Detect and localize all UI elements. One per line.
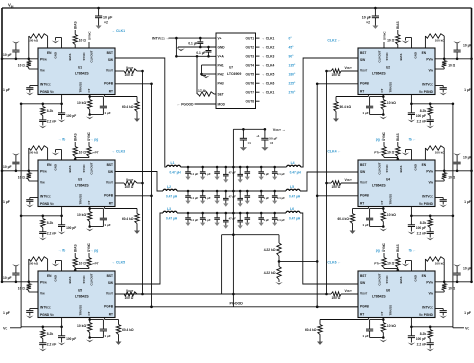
svg-text:VC: VC xyxy=(465,327,470,331)
svg-text:VOUT: VOUT xyxy=(126,289,134,293)
svg-text:1 µF: 1 µF xyxy=(362,334,368,338)
svg-text:60.4 kΩ: 60.4 kΩ xyxy=(122,217,134,221)
svg-text:100 kΩ: 100 kΩ xyxy=(435,150,446,154)
resistor R1d comp 8.2k xyxy=(42,104,44,107)
svg-text:VOUT: VOUT xyxy=(126,178,134,182)
svg-text:×2: ×2 xyxy=(104,21,108,25)
wire PGOOD U4 xyxy=(317,195,358,197)
svg-text:1 µF: 1 µF xyxy=(362,223,368,227)
svg-text:PH2: PH2 xyxy=(218,72,224,76)
svg-text:VC PGND: VC PGND xyxy=(419,90,434,94)
wire PGOOD U5 xyxy=(115,306,152,308)
svg-text:10 µF: 10 µF xyxy=(362,16,372,20)
ground GND pin U4 xyxy=(411,150,413,161)
capacitor C4a 10uF PVIN bypass xyxy=(456,170,459,173)
svg-text:100 Ω: 100 Ω xyxy=(332,73,341,77)
svg-text:→ CLK3: → CLK3 xyxy=(262,55,275,59)
wire FB tap xyxy=(279,260,317,262)
svg-text:VOUT: VOUT xyxy=(345,289,353,293)
svg-text:LTC6909: LTC6909 xyxy=(227,72,241,76)
capacitor C3e 1uF CT xyxy=(90,208,104,210)
svg-text:LT8642S: LT8642S xyxy=(75,72,89,76)
svg-text:4.22 kΩ: 4.22 kΩ xyxy=(264,271,276,275)
svg-text:SYNC: SYNC xyxy=(385,275,389,284)
capacitor CIN2 10uF on VIN rail right xyxy=(374,7,377,10)
svg-text:CLKOUT: CLKOUT xyxy=(378,50,382,62)
svg-text:OUT4: OUT4 xyxy=(245,64,254,68)
capacitor C4c comp 2.2nF xyxy=(427,231,434,233)
wire SW phase 3 xyxy=(115,172,163,192)
svg-text:45°: 45° xyxy=(289,46,295,50)
svg-text:SYNC: SYNC xyxy=(82,52,86,61)
wire PGOOD U6 xyxy=(317,306,358,308)
svg-text:L4: L4 xyxy=(291,161,295,165)
svg-text:VOUT: VOUT xyxy=(360,291,368,295)
svg-text:VIN: VIN xyxy=(428,291,433,295)
svg-text:PGFB: PGFB xyxy=(104,304,114,308)
svg-text:100 pF: 100 pF xyxy=(66,226,76,230)
svg-text:10 Ω: 10 Ω xyxy=(448,64,455,68)
svg-text:LT8642S: LT8642S xyxy=(75,295,89,299)
svg-text:10 Ω: 10 Ω xyxy=(18,64,25,68)
wire PGOOD bottom bus xyxy=(115,306,358,308)
svg-text:INTVCC: INTVCC xyxy=(422,195,433,199)
svg-text:×2: ×2 xyxy=(366,21,370,25)
capacitor COUT row3 col3 xyxy=(216,212,219,215)
capacitor COUT row1 col3 xyxy=(216,166,219,169)
svg-text:CLKOUT: CLKOUT xyxy=(378,162,382,174)
svg-text:4.22 kΩ: 4.22 kΩ xyxy=(264,248,276,252)
svg-text:OUT3: OUT3 xyxy=(245,55,254,59)
regulator U1 LT8642S body xyxy=(38,48,115,95)
inductor L6 0.47uH xyxy=(286,211,300,213)
svg-text:VIN: VIN xyxy=(428,68,433,72)
ground GND pin U3 xyxy=(61,150,63,161)
svg-text:LT8642S: LT8642S xyxy=(372,72,386,76)
svg-text:10 kΩ: 10 kΩ xyxy=(77,101,86,105)
inductor L1 0.47uH xyxy=(167,165,181,167)
svg-text:BIAS: BIAS xyxy=(73,244,77,252)
svg-text:VOUT: VOUT xyxy=(360,180,368,184)
svg-text:100 pF: 100 pF xyxy=(416,114,426,118)
svg-text:U5: U5 xyxy=(78,289,82,293)
resistor R1f 60.4k RT xyxy=(104,95,106,97)
svg-text:INTVCC1 →: INTVCC1 → xyxy=(152,36,169,40)
svg-text:10 Ω: 10 Ω xyxy=(448,176,455,180)
svg-text:1 µF: 1 µF xyxy=(464,200,471,204)
capacitor CIN1 10uF on VIN rail xyxy=(97,7,100,10)
svg-text:CT: CT xyxy=(87,200,91,204)
svg-text:10 kΩ: 10 kΩ xyxy=(77,324,86,328)
wire PVIN U2 xyxy=(435,58,472,60)
svg-text:8.2k: 8.2k xyxy=(47,109,54,113)
svg-text:10 Ω: 10 Ω xyxy=(79,262,87,266)
regulator U3 LT8642S body xyxy=(38,160,115,207)
svg-text:→ CLK1: → CLK1 xyxy=(262,37,275,41)
svg-text:60.4 kΩ: 60.4 kΩ xyxy=(305,328,317,332)
svg-text:VOUT: VOUT xyxy=(360,68,368,72)
wire PVIN U3 xyxy=(2,170,38,172)
resistor R5g 100ohm VOUT sense xyxy=(115,293,124,295)
svg-text:17.4k: 17.4k xyxy=(198,89,206,93)
svg-text:VC PGND: VC PGND xyxy=(419,313,434,317)
node SYNC U1 clock net xyxy=(88,42,90,48)
wire SW phase 4 xyxy=(300,172,358,191)
svg-text:→ CLK2: → CLK2 xyxy=(262,46,275,50)
wire VC comp U2 xyxy=(410,95,412,104)
resistor RFB2 4.22k xyxy=(277,267,281,280)
svg-text:OUT8: OUT8 xyxy=(245,100,254,104)
capacitor C1c comp 2.2nF xyxy=(39,119,46,121)
resistor R2a 100k EN pullup xyxy=(443,58,446,61)
svg-text:BIAS: BIAS xyxy=(68,166,72,173)
svg-text:PVIN: PVIN xyxy=(40,58,47,62)
svg-text:BIAS: BIAS xyxy=(399,54,403,61)
ground divider xyxy=(275,282,283,285)
svg-text:BIAS: BIAS xyxy=(73,21,77,29)
svg-text:TRK/SS: TRK/SS xyxy=(79,194,83,205)
svg-text:BST: BST xyxy=(360,163,366,167)
svg-text:SET: SET xyxy=(218,92,224,96)
capacitor C5a 10uF PVIN bypass xyxy=(15,281,18,284)
regulator U5 LT8642S body xyxy=(38,271,115,318)
svg-text:10 µF: 10 µF xyxy=(463,267,472,271)
wire VOUT center xyxy=(232,129,234,306)
resistor R5f 60.4k RT xyxy=(104,318,106,320)
resistor R3d comp 8.2k xyxy=(42,216,44,219)
svg-text:2.2 nF: 2.2 nF xyxy=(47,120,57,124)
svg-text:8.2k: 8.2k xyxy=(47,332,54,336)
svg-text:100 pF: 100 pF xyxy=(416,337,426,341)
wire PVIN U6 xyxy=(435,281,472,283)
svg-text:2.2 nF: 2.2 nF xyxy=(417,343,427,347)
svg-text:→ CLK1: → CLK1 xyxy=(262,91,275,95)
svg-text:SYNC: SYNC xyxy=(82,275,86,284)
capacitor COUT row1 col4 xyxy=(246,166,249,169)
capacitor COUT row1 col1 xyxy=(187,166,190,169)
svg-text:LT8642S: LT8642S xyxy=(372,295,386,299)
svg-text:1 µF: 1 µF xyxy=(104,334,110,338)
svg-text:+1: +1 xyxy=(256,134,260,138)
capacitor C6c comp 2.2nF xyxy=(427,342,434,344)
svg-text:50 µF: 50 µF xyxy=(269,137,277,141)
svg-text:CLK2 ←: CLK2 ← xyxy=(327,39,341,43)
capacitor COUT bulk 100uF xyxy=(242,128,245,131)
svg-text:MOD: MOD xyxy=(218,102,226,106)
svg-text:10 kΩ: 10 kΩ xyxy=(387,101,396,105)
capacitor C1e 1uF CT xyxy=(90,96,104,98)
svg-text:L1: L1 xyxy=(171,161,175,165)
svg-text:0.1 µF: 0.1 µF xyxy=(190,218,198,222)
svg-text:INTVCC: INTVCC xyxy=(422,306,433,310)
svg-text:→ pg: → pg xyxy=(90,138,98,142)
svg-text:47 µF: 47 µF xyxy=(229,170,236,174)
svg-text:VOUT: VOUT xyxy=(106,180,114,184)
svg-text:GND: GND xyxy=(54,52,58,58)
svg-text:1 µF: 1 µF xyxy=(3,311,10,315)
wire OUT4 U7 xyxy=(256,64,260,66)
resistor R4a 100k EN pullup xyxy=(443,170,446,173)
resistor R4f 60.4k RT xyxy=(367,207,369,209)
resistor R2g 100ohm VOUT sense xyxy=(341,70,358,72)
svg-text:CLK4 ←: CLK4 ← xyxy=(327,150,341,154)
svg-text:8.2k: 8.2k xyxy=(420,221,427,225)
svg-text:0.47 µH: 0.47 µH xyxy=(289,195,301,199)
svg-text:OUT1: OUT1 xyxy=(245,37,254,41)
svg-text:PGND VC: PGND VC xyxy=(40,313,54,317)
svg-text:10 kΩ: 10 kΩ xyxy=(77,213,86,217)
svg-text:VIN: VIN xyxy=(428,180,433,184)
svg-text:PT⟝: PT⟝ xyxy=(374,151,381,155)
wire OUT2 U7 xyxy=(256,46,260,48)
svg-text:SYNC: SYNC xyxy=(385,52,389,61)
svg-text:fb ←: fb ← xyxy=(409,138,416,142)
capacitor C2b 1uF INTVCC xyxy=(435,85,443,87)
svg-text:EN: EN xyxy=(47,51,52,55)
svg-text:BIAS: BIAS xyxy=(396,21,400,29)
svg-text:TRK/SS: TRK/SS xyxy=(79,82,83,93)
svg-text:100 pF: 100 pF xyxy=(66,114,76,118)
svg-text:0.1 µF: 0.1 µF xyxy=(277,172,285,176)
svg-text:1 µF: 1 µF xyxy=(104,223,110,227)
svg-text:→ pg: → pg xyxy=(90,249,98,253)
capacitor COUT row2 col4 xyxy=(246,190,249,193)
svg-text:100 kΩ: 100 kΩ xyxy=(435,38,446,42)
svg-text:SW: SW xyxy=(108,58,113,62)
svg-text:→ CLK1: → CLK1 xyxy=(112,29,126,33)
capacitor COUT row2 col2 xyxy=(201,190,204,193)
svg-text:EN: EN xyxy=(422,274,427,278)
svg-text:U6: U6 xyxy=(386,289,390,293)
svg-text:100 Ω: 100 Ω xyxy=(332,296,341,300)
svg-text:RT: RT xyxy=(360,90,364,94)
wire VOUT rail 2 xyxy=(177,190,286,192)
svg-text:PH1: PH1 xyxy=(218,63,224,67)
svg-text:CT: CT xyxy=(380,88,384,92)
svg-text:OUT7: OUT7 xyxy=(245,91,254,95)
svg-text:100 Ω: 100 Ω xyxy=(125,185,134,189)
wire OUT3 U7 xyxy=(256,55,260,57)
wire PVIN U1 xyxy=(2,58,38,60)
capacitor C7a 0.1uF xyxy=(199,38,201,41)
resistor R4c 1ohm VIN filter xyxy=(443,171,445,173)
svg-text:INTVCC: INTVCC xyxy=(40,83,51,87)
svg-text:INTVCC: INTVCC xyxy=(40,195,51,199)
capacitor C2d 100pF VC xyxy=(410,104,412,113)
svg-text:1 µF: 1 µF xyxy=(205,218,211,222)
svg-text:GND: GND xyxy=(54,164,58,170)
ground GND pin U1 xyxy=(61,38,63,49)
svg-text:TRK/SS: TRK/SS xyxy=(389,194,393,205)
capacitor COUT row3 bulk 240 xyxy=(239,212,242,215)
capacitor C1a 10uF PVIN bypass xyxy=(15,58,18,61)
svg-text:2.2 nF: 2.2 nF xyxy=(417,232,427,236)
svg-text:1 µF: 1 µF xyxy=(464,88,471,92)
capacitor C6d 100pF VC xyxy=(410,327,412,336)
svg-text:VC: VC xyxy=(3,327,8,331)
svg-text:SW: SW xyxy=(360,58,365,62)
svg-text:1 µF: 1 µF xyxy=(3,88,10,92)
svg-text:CT: CT xyxy=(380,311,384,315)
svg-text:U3: U3 xyxy=(78,178,82,182)
resistor R4e 10k CT xyxy=(382,207,384,212)
svg-text:SYNC: SYNC xyxy=(82,164,86,173)
svg-text:0.1 µF: 0.1 µF xyxy=(188,42,197,46)
capacitor COUT bulk2 50uF xyxy=(264,129,266,138)
svg-text:1 µF: 1 µF xyxy=(104,111,110,115)
svg-text:0.1 µF: 0.1 µF xyxy=(277,218,285,222)
svg-text:TRK/SS: TRK/SS xyxy=(389,305,393,316)
svg-text:SW: SW xyxy=(108,281,113,285)
svg-text:0.47 µH: 0.47 µH xyxy=(289,217,301,221)
inductor L4 0.47uH xyxy=(287,165,301,167)
capacitor C6a 10uF PVIN bypass xyxy=(456,281,459,284)
svg-text:VOUT: VOUT xyxy=(345,178,353,182)
svg-text:BST: BST xyxy=(107,51,113,55)
svg-text:EN: EN xyxy=(47,163,52,167)
svg-text:⟜PT: ⟜PT xyxy=(92,262,99,266)
resistor R1e 10k CT xyxy=(89,95,91,100)
wire FB bus right xyxy=(326,71,328,294)
svg-text:SW: SW xyxy=(108,170,113,174)
capacitor COUT row3 bulk 226 xyxy=(225,212,228,215)
wire VIN left bus xyxy=(1,8,3,282)
svg-text:LT8642S: LT8642S xyxy=(75,184,89,188)
svg-text:8.2k: 8.2k xyxy=(420,109,427,113)
svg-text:→ CLK4: → CLK4 xyxy=(262,64,275,68)
svg-text:10 µF: 10 µF xyxy=(463,156,472,160)
svg-text:V+: V+ xyxy=(218,37,222,41)
svg-text:10 µF: 10 µF xyxy=(463,44,472,48)
capacitor COUT row1 col6 xyxy=(273,166,276,169)
svg-text:100 kΩ: 100 kΩ xyxy=(28,150,39,154)
wire FB link vertical xyxy=(221,235,223,294)
capacitor COUT row3 col2 xyxy=(201,212,204,215)
svg-text:PVIN: PVIN xyxy=(426,58,433,62)
capacitor COUT row2 col3 xyxy=(216,190,219,193)
svg-text:RT: RT xyxy=(109,90,113,94)
capacitor C4e 1uF CT xyxy=(370,208,384,210)
resistor R6c 1ohm VIN filter xyxy=(443,282,445,284)
svg-text:8.2k: 8.2k xyxy=(420,332,427,336)
svg-text:CLKOUT: CLKOUT xyxy=(378,273,382,285)
svg-text:225°: 225° xyxy=(289,82,297,86)
resistor R7a 17.4k SET xyxy=(196,56,198,94)
resistor R3g 100ohm VOUT sense xyxy=(115,182,124,184)
regulator U6 LT8642S body xyxy=(358,271,435,318)
svg-text:×2: ×2 xyxy=(270,141,274,145)
svg-text:PVIN: PVIN xyxy=(426,170,433,174)
capacitor COUT row1 bulk 240 xyxy=(239,166,242,169)
svg-text:→ CLK3: → CLK3 xyxy=(112,150,126,154)
svg-text:PGND VC: PGND VC xyxy=(40,202,54,206)
svg-text:PVIN: PVIN xyxy=(40,170,47,174)
resistor R3a 100k EN pullup xyxy=(28,170,31,173)
svg-text:VIN: VIN xyxy=(40,180,45,184)
svg-text:PVIN: PVIN xyxy=(40,281,47,285)
capacitor COUT row3 col4 xyxy=(246,212,249,215)
capacitor COUT row2 col5 xyxy=(260,190,263,193)
svg-text:10 Ω: 10 Ω xyxy=(387,39,395,43)
svg-text:90°: 90° xyxy=(289,55,295,59)
svg-text:1 µF: 1 µF xyxy=(263,196,269,200)
svg-text:EN: EN xyxy=(47,274,52,278)
svg-text:EN: EN xyxy=(422,163,427,167)
svg-text:SYNC: SYNC xyxy=(385,164,389,173)
svg-text:2.2 nF: 2.2 nF xyxy=(417,120,427,124)
wire OUT8 U7 xyxy=(256,100,260,102)
wire OUT7 U7 xyxy=(256,91,260,93)
resistor R2e 10k CT xyxy=(382,95,384,100)
svg-text:10 µF: 10 µF xyxy=(3,53,12,57)
capacitor C5c comp 2.2nF xyxy=(39,342,46,344)
capacitor C5b 1uF INTVCC xyxy=(30,308,38,310)
capacitor C6e 1uF CT xyxy=(370,319,384,321)
svg-text:EN: EN xyxy=(422,51,427,55)
resistor R4g 100ohm VOUT sense xyxy=(341,182,358,184)
wire V+ U7 xyxy=(169,37,217,39)
svg-text:fb ←: fb ← xyxy=(409,249,416,253)
svg-text:GND: GND xyxy=(414,275,418,281)
svg-text:CLK6 ←: CLK6 ← xyxy=(327,261,341,265)
capacitor C2a 10uF PVIN bypass xyxy=(456,58,459,61)
svg-text:GND: GND xyxy=(54,275,58,281)
resistor R6e 10k CT xyxy=(382,318,384,323)
svg-text:pg ←: pg ← xyxy=(376,138,384,142)
capacitor C6b 1uF INTVCC xyxy=(435,308,443,310)
regulator U2 LT8642S body xyxy=(358,48,435,95)
svg-text:VOUT: VOUT xyxy=(106,291,114,295)
svg-text:1 µF: 1 µF xyxy=(263,218,269,222)
svg-text:U4: U4 xyxy=(386,178,390,182)
svg-text:1 µF: 1 µF xyxy=(3,200,10,204)
svg-text:GND: GND xyxy=(218,45,226,49)
inductor L2 0.47uH xyxy=(163,189,177,191)
wire VC bus right xyxy=(452,104,454,328)
svg-text:INTVCC: INTVCC xyxy=(422,83,433,87)
capacitor COUT row2 col6 xyxy=(273,190,276,193)
wire PH1 PH2 ground xyxy=(202,64,217,66)
capacitor COUT row3 col6 xyxy=(273,212,276,215)
svg-text:100 Ω: 100 Ω xyxy=(125,296,134,300)
svg-text:→ fb: → fb xyxy=(58,138,65,142)
svg-text:→ CLK5: → CLK5 xyxy=(112,261,126,265)
wire VOUT node xyxy=(233,128,264,130)
resistor R3e 10k CT xyxy=(89,207,91,212)
svg-text:PGFB: PGFB xyxy=(360,304,370,308)
svg-text:CLKOUT: CLKOUT xyxy=(90,273,94,285)
svg-text:BST: BST xyxy=(360,51,366,55)
svg-text:BIAS: BIAS xyxy=(399,277,403,284)
inductor L3 0.47uH xyxy=(163,211,177,213)
ground U7 gnd flag xyxy=(177,47,179,48)
svg-text:BST: BST xyxy=(107,274,113,278)
resistor R6d comp 8.2k xyxy=(429,327,431,330)
svg-text:VOUT: VOUT xyxy=(345,66,353,70)
svg-text:8.2k: 8.2k xyxy=(47,221,54,225)
svg-text:→ CLK6: → CLK6 xyxy=(262,82,275,86)
capacitor C3c comp 2.2nF xyxy=(39,231,46,233)
wire FB bus left xyxy=(142,71,144,294)
svg-text:0.1 µF: 0.1 µF xyxy=(190,196,198,200)
svg-text:135°: 135° xyxy=(289,64,297,68)
svg-text:PGFB: PGFB xyxy=(104,193,114,197)
svg-text:BIAS: BIAS xyxy=(396,133,400,141)
capacitor COUT row1 col2 xyxy=(201,166,204,169)
svg-text:270°: 270° xyxy=(289,91,297,95)
svg-text:PT⟝: PT⟝ xyxy=(374,262,381,266)
oscillator U7 LTC6909 body xyxy=(216,33,256,109)
